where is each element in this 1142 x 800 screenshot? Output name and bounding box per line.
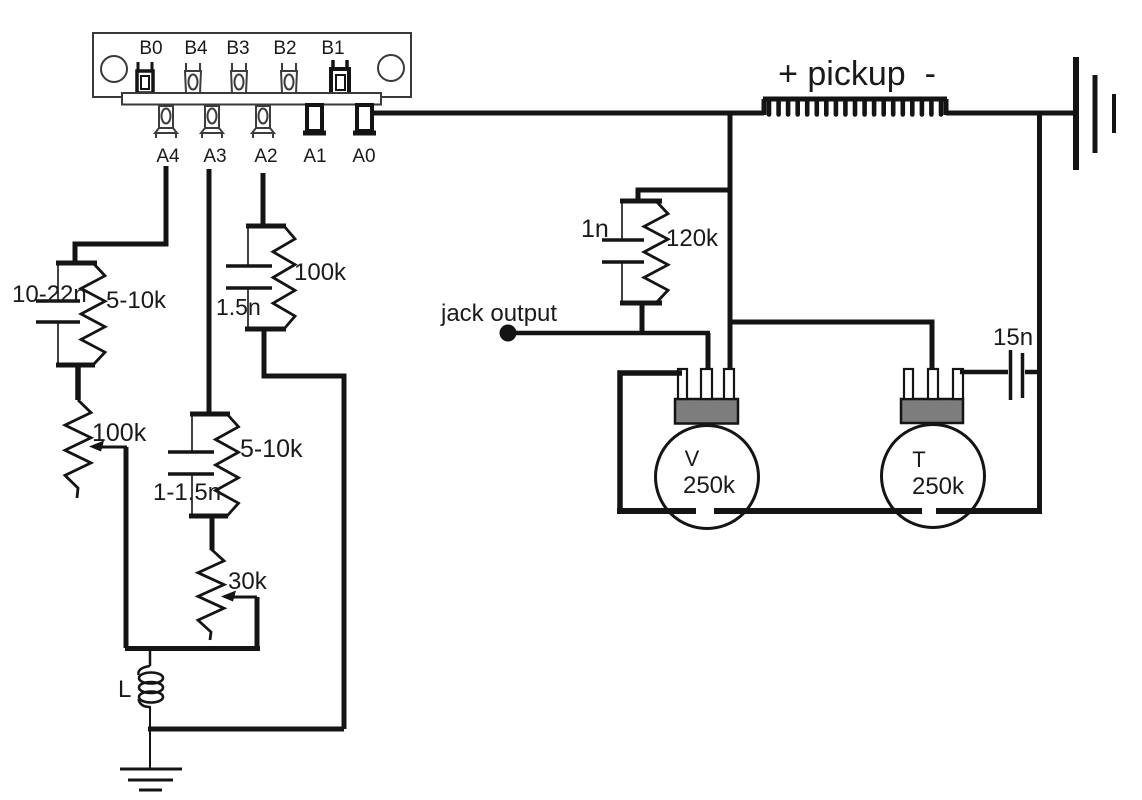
svg-text:10-22n: 10-22n <box>12 281 87 308</box>
svg-text:250k: 250k <box>683 472 736 499</box>
svg-text:jack output: jack output <box>440 300 557 327</box>
svg-text:250k: 250k <box>912 473 965 500</box>
svg-text:L: L <box>118 676 131 703</box>
svg-text:B3: B3 <box>226 38 249 59</box>
svg-text:V: V <box>685 446 700 471</box>
svg-text:B2: B2 <box>273 38 296 59</box>
svg-text:B1: B1 <box>321 38 344 59</box>
svg-text:1-1.5n: 1-1.5n <box>153 479 221 506</box>
svg-text:B0: B0 <box>139 38 162 59</box>
svg-text:A3: A3 <box>203 146 226 167</box>
svg-text:120k: 120k <box>666 225 719 252</box>
svg-text:100k: 100k <box>92 419 147 447</box>
svg-text:A1: A1 <box>303 146 326 167</box>
svg-text:5-10k: 5-10k <box>106 287 167 314</box>
svg-text:30k: 30k <box>228 568 268 595</box>
svg-text:1.5n: 1.5n <box>216 294 261 320</box>
svg-text:A2: A2 <box>254 146 277 167</box>
svg-text:A4: A4 <box>156 146 180 167</box>
svg-text:B4: B4 <box>184 38 208 59</box>
svg-text:15n: 15n <box>993 324 1033 351</box>
svg-text:5-10k: 5-10k <box>240 435 303 463</box>
svg-text:100k: 100k <box>294 259 347 286</box>
svg-text:1n: 1n <box>581 215 609 243</box>
svg-text:+ pickup -: + pickup - <box>778 55 936 93</box>
svg-text:A0: A0 <box>352 146 375 167</box>
svg-text:T: T <box>912 447 925 472</box>
